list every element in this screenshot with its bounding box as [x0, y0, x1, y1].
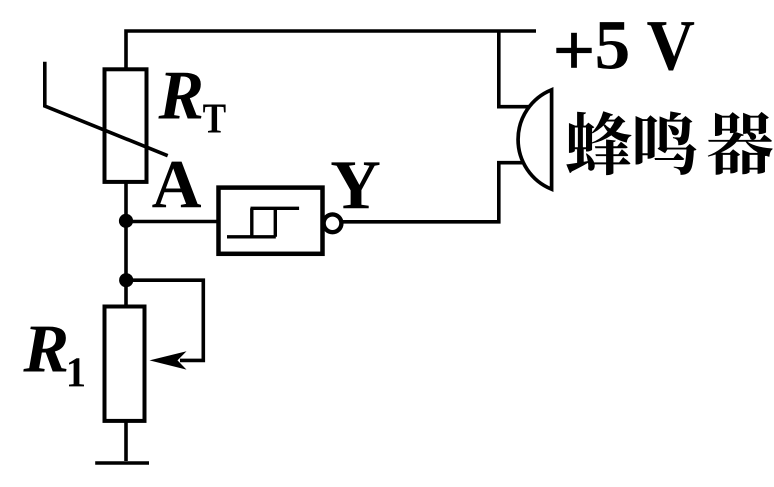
hysteresis symbol inside U1 — [227, 208, 299, 237]
label +5 V — [556, 22, 694, 70]
potentiometer R1 body — [105, 307, 145, 421]
node A junction dot — [119, 214, 133, 228]
label R1 — [23, 327, 84, 387]
wire RT bottom through node A down to R1 top — [124, 183, 128, 307]
resistor RT — [105, 69, 147, 182]
label A — [152, 162, 201, 208]
label RT — [158, 73, 225, 133]
wire top +5V rail from RT top to buzzer top terminal — [126, 31, 536, 107]
node junction dot at R1 wiper tap — [119, 273, 133, 287]
label 蜂鸣器 (buzzer) — [566, 111, 772, 175]
wire node A to Schmitt input — [126, 220, 219, 224]
buzzer BZ (D-shape) — [518, 90, 552, 189]
wire Y output to buzzer bottom terminal — [342, 163, 522, 222]
wiper arrowhead — [150, 351, 187, 369]
Schmitt trigger inverter U1 box — [219, 188, 323, 254]
wiper wire from tap dot around to arrow — [126, 280, 203, 360]
wire R1 bottom to ground — [124, 421, 128, 461]
thermistor strike mark of RT — [45, 62, 168, 156]
inverter output bubble — [324, 214, 342, 232]
ground — [95, 461, 149, 465]
label Y — [332, 162, 380, 208]
